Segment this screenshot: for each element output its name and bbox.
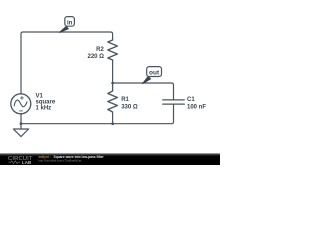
junction V1 bottom bbox=[20, 122, 23, 125]
svg-text:out: out bbox=[149, 69, 160, 76]
wire middle rail to C1 bbox=[113, 83, 174, 100]
svg-text:R1: R1 bbox=[121, 97, 129, 103]
svg-text:220 Ω: 220 Ω bbox=[88, 54, 105, 60]
wire top rail bbox=[21, 32, 113, 94]
svg-text:330 Ω: 330 Ω bbox=[121, 105, 138, 111]
svg-text:100 nF: 100 nF bbox=[187, 105, 206, 111]
svg-text:in: in bbox=[67, 19, 73, 26]
ground bbox=[13, 129, 28, 137]
wire V1 bottom bbox=[20, 113, 22, 129]
resistor R1 bbox=[108, 83, 118, 112]
svg-text:LAB: LAB bbox=[22, 160, 32, 165]
svg-text:C1: C1 bbox=[187, 97, 195, 103]
wire bottom rail bbox=[21, 104, 174, 123]
svg-text:R2: R2 bbox=[96, 47, 104, 53]
wire R2 to middle node bbox=[112, 60, 114, 83]
svg-text:Square wave into low-pass filt: Square wave into low-pass filter bbox=[54, 155, 105, 159]
node flag in bbox=[59, 17, 74, 33]
svg-text:mdlynl :: mdlynl : bbox=[39, 155, 51, 159]
junction middle node bbox=[111, 82, 114, 85]
node flag out bbox=[142, 67, 161, 84]
svg-text:1 kHz: 1 kHz bbox=[36, 105, 52, 111]
resistor R2 bbox=[108, 40, 118, 60]
junction bottom R1 bbox=[111, 122, 114, 125]
capacitor C1 bbox=[163, 100, 185, 104]
voltage source V1 bbox=[11, 94, 31, 114]
wire R1 to bottom rail bbox=[112, 112, 114, 124]
logo resistor glyph bbox=[9, 161, 21, 164]
svg-text:http://circuitlab.com/c71af9aa: http://circuitlab.com/c71af9aa4b2ar bbox=[39, 159, 82, 163]
